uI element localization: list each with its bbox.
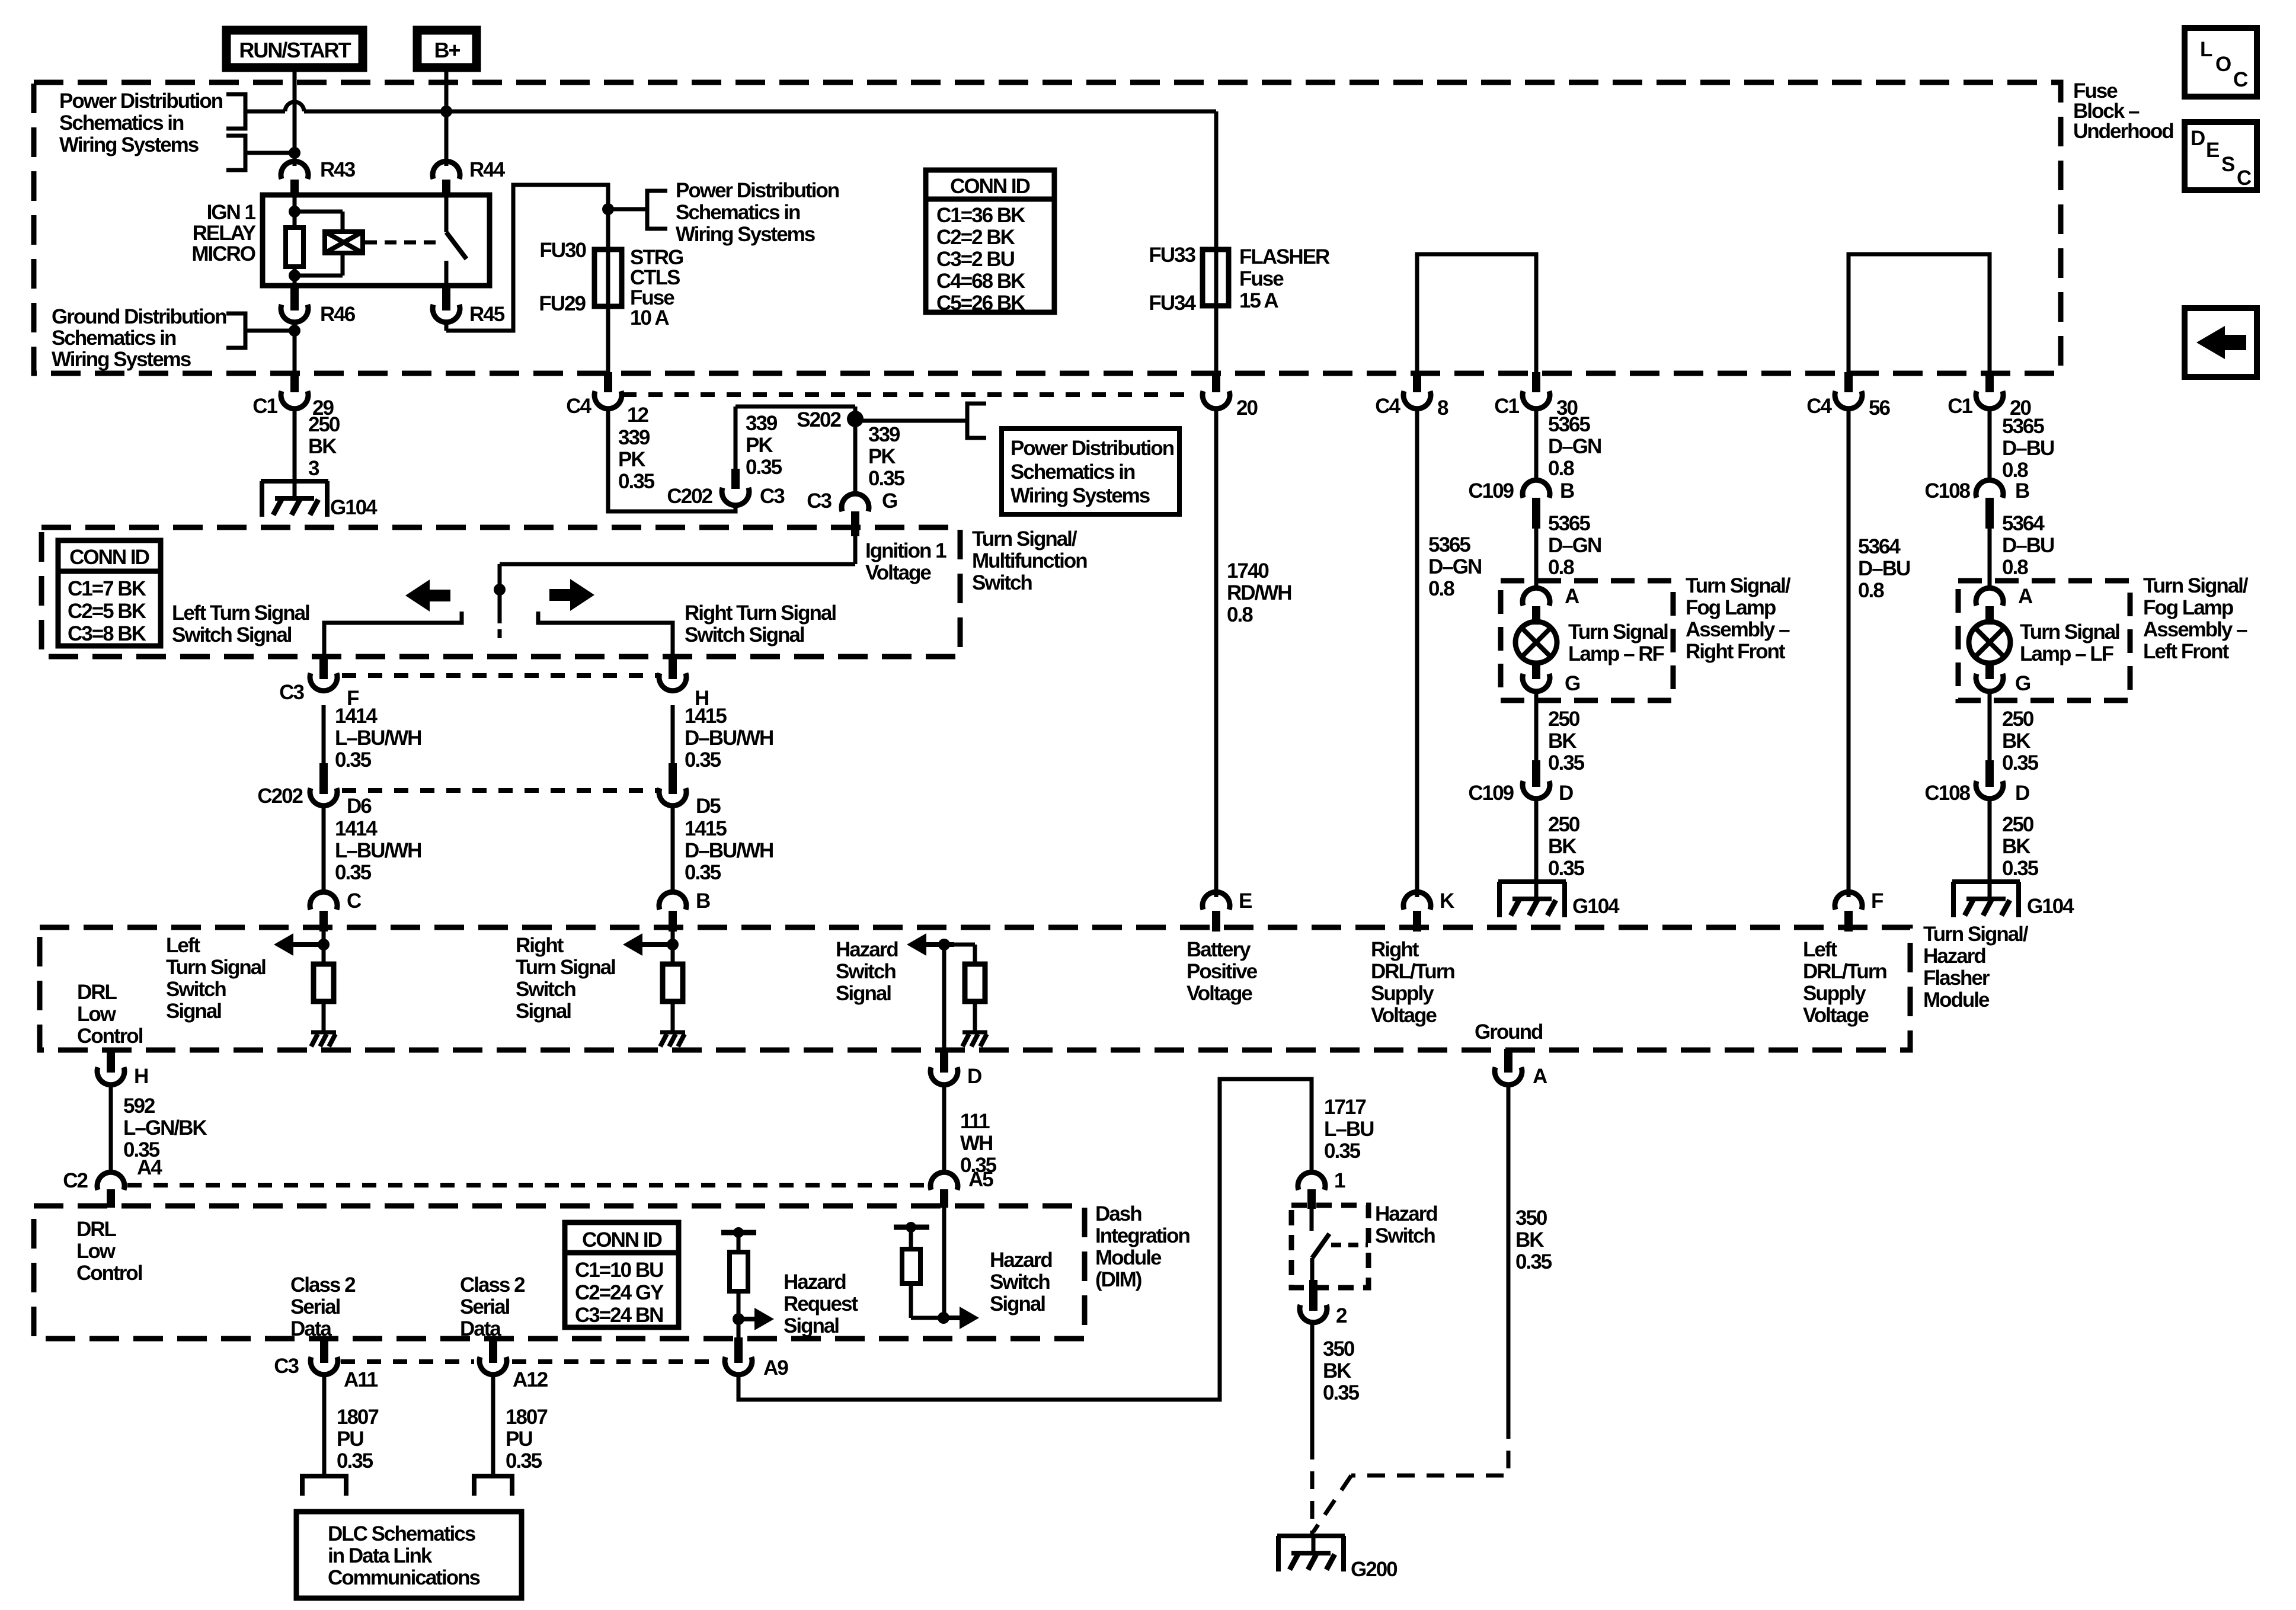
svg-text:A: A (2018, 585, 2033, 608)
label wire 1740 RD/WH 0.8 (1227, 559, 1291, 626)
svg-text:Schematics in: Schematics in (1011, 460, 1135, 484)
label wire 1415 D-BU/WH 0.35 (lower) (685, 817, 773, 884)
svg-text:Ignition 1: Ignition 1 (865, 539, 946, 562)
label: Class 2 Serial Data (A12) (460, 1273, 525, 1340)
svg-text:0.35: 0.35 (2002, 751, 2039, 774)
svg-text:G104: G104 (2027, 895, 2074, 918)
svg-text:FU34: FU34 (1149, 292, 1196, 315)
label wire 1414 L-BU/WH 0.35 (lower) (335, 817, 421, 884)
svg-text:Integration: Integration (1095, 1224, 1189, 1247)
svg-text:Switch Signal: Switch Signal (172, 623, 292, 646)
connector C109-B (1468, 479, 1574, 529)
wire 1414 upper (322, 705, 326, 764)
connector R43 (281, 158, 356, 197)
svg-text:C3: C3 (760, 485, 785, 508)
svg-text:350: 350 (1323, 1337, 1355, 1361)
connector 1 (hazard switch) (1298, 1169, 1345, 1231)
label: Left DRL/Turn Supply Voltage (1803, 938, 1886, 1027)
svg-text:A5: A5 (968, 1168, 993, 1191)
svg-text:Switch: Switch (990, 1270, 1050, 1294)
svg-text:Low: Low (76, 1240, 116, 1263)
connector C4-12 (566, 372, 648, 427)
dashed wire A to G200 (1313, 1421, 1508, 1532)
label wire 250 BK 0.35 (lower LF) (2002, 813, 2039, 880)
svg-text:C1: C1 (252, 395, 277, 418)
svg-text:in Data Link: in Data Link (328, 1544, 433, 1567)
svg-text:D: D (1559, 782, 1573, 805)
label A4 (137, 1156, 162, 1179)
svg-text:L–BU/WH: L–BU/WH (335, 726, 421, 750)
connector K (right supply) (1403, 889, 1454, 932)
arrow hazard switch signal (907, 933, 954, 956)
svg-text:5364: 5364 (1858, 535, 1901, 558)
svg-text:12: 12 (627, 404, 648, 427)
label wire 5364 D-BU 0.8 (lower LF) (2002, 512, 2054, 579)
svg-text:Schematics in: Schematics in (59, 111, 184, 135)
relay coil resistor (286, 195, 303, 286)
switch blade stub (498, 629, 502, 638)
svg-text:BK: BK (1323, 1359, 1351, 1382)
label: DRL Low Control (flasher module) (77, 981, 143, 1048)
svg-text:Ground: Ground (1475, 1020, 1543, 1044)
svg-text:Left Front: Left Front (2143, 640, 2230, 663)
svg-text:Hazard: Hazard (1375, 1202, 1437, 1225)
svg-text:Wiring Systems: Wiring Systems (676, 223, 816, 246)
connector C2-A4 (63, 1169, 124, 1208)
connector F (left supply) (1835, 889, 1884, 932)
svg-text:BK: BK (1548, 835, 1576, 858)
CONN ID table (multifunction switch) (58, 540, 161, 646)
svg-text:Signal: Signal (836, 982, 891, 1005)
right turn contact (538, 612, 673, 676)
wire hazard resistor to ground (973, 1001, 977, 1032)
wire resistor to ground (left) (322, 1001, 326, 1032)
svg-text:Multifunction: Multifunction (972, 549, 1087, 572)
label: Hazard Request Signal (784, 1270, 858, 1337)
svg-text:Switch: Switch (836, 960, 896, 983)
arrow hazard switch signal (945, 1307, 979, 1329)
svg-text:Battery: Battery (1187, 938, 1251, 961)
svg-text:Wiring Systems: Wiring Systems (59, 133, 199, 156)
svg-text:Right: Right (516, 934, 564, 957)
svg-text:Serial: Serial (290, 1295, 340, 1318)
label: Power Distribution Schematics in Wiring Systems (top left) (59, 89, 223, 156)
resistor left turn (314, 964, 334, 1001)
svg-text:Voltage: Voltage (1803, 1004, 1869, 1027)
svg-text:Voltage: Voltage (1187, 982, 1252, 1005)
fine dashed connector line (switch C3) (342, 673, 658, 678)
switch common pivot dot (494, 584, 506, 596)
svg-text:Fog Lamp: Fog Lamp (1686, 596, 1776, 619)
resistor hazard (965, 964, 985, 1001)
svg-text:Positive: Positive (1187, 960, 1258, 983)
svg-text:Hazard: Hazard (990, 1249, 1052, 1272)
label wire 1415 D-BU/WH 0.35 (upper) (685, 705, 773, 772)
svg-text:Dash: Dash (1095, 1202, 1141, 1225)
svg-text:1414: 1414 (335, 817, 378, 840)
svg-text:C202: C202 (667, 485, 712, 508)
svg-text:Switch: Switch (516, 978, 575, 1001)
svg-text:C2: C2 (63, 1169, 88, 1192)
svg-text:C1=10 BU: C1=10 BU (575, 1259, 663, 1282)
svg-text:5365: 5365 (1428, 533, 1470, 556)
svg-text:Module: Module (1095, 1246, 1162, 1269)
svg-text:BK: BK (2002, 835, 2030, 858)
svg-text:Right Turn Signal: Right Turn Signal (685, 601, 836, 625)
connector H (drl low) (97, 1049, 148, 1088)
svg-text:1807: 1807 (337, 1406, 378, 1429)
svg-text:Signal: Signal (516, 1000, 571, 1023)
wire 592 H to C2-A4 (109, 1083, 113, 1174)
ground (left turn input) (311, 1032, 336, 1046)
svg-text:111: 111 (960, 1110, 990, 1133)
svg-text:C3: C3 (807, 489, 832, 513)
svg-text:DRL: DRL (77, 981, 117, 1004)
label wire 111 WH 0.35 (960, 1110, 997, 1177)
svg-text:Serial: Serial (460, 1295, 510, 1318)
wire right turn input (671, 911, 675, 964)
wire A9 to hazard switch pin1 (738, 1079, 1312, 1400)
svg-text:Request: Request (784, 1292, 858, 1315)
label: Turn Signal/Fog Lamp Assembly - Left Front (2143, 574, 2249, 663)
svg-text:2: 2 (1336, 1304, 1347, 1327)
svg-text:RUN/START: RUN/START (239, 38, 351, 62)
svg-text:(DIM): (DIM) (1095, 1268, 1141, 1291)
back arrow box (2185, 308, 2257, 377)
connector C1-20 (1948, 372, 2031, 420)
svg-text:250: 250 (308, 413, 340, 436)
svg-text:C4: C4 (566, 395, 591, 418)
svg-text:Turn Signal: Turn Signal (166, 956, 266, 979)
svg-text:Power Distribution: Power Distribution (676, 179, 839, 202)
svg-text:S: S (2221, 153, 2234, 176)
label: Dash Integration Module (DIM) (1095, 1202, 1189, 1291)
left turn contact (324, 612, 462, 676)
svg-text:1415: 1415 (685, 817, 727, 840)
svg-text:Switch: Switch (972, 571, 1032, 594)
svg-text:1807: 1807 (506, 1406, 547, 1429)
svg-text:C109: C109 (1468, 479, 1514, 502)
connector C1-29 (252, 372, 334, 420)
wire C108-B to lamp A (1988, 506, 1992, 589)
label: Hazard Switch (1375, 1202, 1437, 1247)
wire loop C4-8 to C1-30 (1417, 254, 1536, 373)
svg-text:G: G (2015, 672, 2030, 695)
wire 1415 lower (671, 804, 675, 894)
svg-text:C1=7 BK: C1=7 BK (68, 577, 146, 600)
svg-text:339: 339 (746, 412, 778, 435)
svg-text:DRL/Turn: DRL/Turn (1803, 960, 1886, 983)
svg-text:C108: C108 (1924, 782, 1970, 805)
label: Ground Distribution Schematics in Wiring Systems (52, 305, 226, 371)
svg-text:CONN ID: CONN ID (950, 175, 1030, 198)
junction dot ground-dist branch (289, 325, 300, 337)
svg-text:0.35: 0.35 (1548, 751, 1585, 774)
svg-text:A9: A9 (763, 1356, 788, 1379)
svg-text:1414: 1414 (335, 705, 378, 728)
connector C202-D6 (257, 763, 372, 818)
svg-text:0.35: 0.35 (1324, 1140, 1361, 1163)
fine dashed connector line (DLC) (341, 1359, 720, 1364)
label: DRL Low Control (DIM) (76, 1218, 142, 1285)
svg-text:Data: Data (290, 1317, 332, 1340)
label wire 339 PK 0.35 (right) (868, 423, 905, 490)
fine dashed connector line (C202) (342, 788, 658, 793)
box: Power Distribution Schematics in Wiring Systems (S202) (1002, 428, 1179, 514)
relay box IGN 1 RELAY MICRO (263, 195, 490, 286)
svg-text:0.35: 0.35 (337, 1449, 373, 1473)
svg-text:0.35: 0.35 (868, 467, 905, 490)
internal rail T (hazard request) (721, 1227, 756, 1238)
svg-text:Supply: Supply (1371, 982, 1434, 1005)
wire R46 to C1-29 (293, 320, 297, 373)
wire 1740 connector 20 to E (1214, 406, 1219, 897)
label wire 1414 L-BU/WH 0.35 (upper) (335, 705, 421, 772)
svg-text:D–BU: D–BU (1858, 557, 1910, 580)
connector E (battery positive) (1203, 889, 1252, 932)
junction dot hazard request (733, 1313, 744, 1325)
svg-text:K: K (1440, 889, 1454, 913)
svg-text:Turn Signal/: Turn Signal/ (972, 527, 1077, 550)
svg-text:0.35: 0.35 (746, 456, 782, 479)
connector C3-A11 (274, 1337, 378, 1391)
wire C1-29 to G104 (293, 406, 297, 481)
svg-text:RELAY: RELAY (193, 222, 256, 245)
wire lamp LF to C108-D (1988, 691, 1992, 764)
svg-text:C3=2 BU: C3=2 BU (936, 248, 1015, 271)
wire 1415 upper (671, 705, 675, 764)
svg-text:C1: C1 (1948, 395, 1972, 418)
svg-text:339: 339 (868, 423, 900, 446)
connector G (lamp LF) (1976, 661, 2030, 695)
svg-text:L–BU: L–BU (1324, 1118, 1374, 1141)
svg-text:0.8: 0.8 (1548, 556, 1574, 579)
svg-text:0.35: 0.35 (685, 748, 721, 772)
label wire 5365 D-BU 0.8 (upper LF) (2002, 415, 2054, 482)
svg-text:BK: BK (1515, 1228, 1544, 1251)
label wire 350 BK 0.35 (switch) (1323, 1337, 1360, 1404)
DESC legend box (2185, 122, 2257, 190)
label FU34 (1149, 292, 1196, 315)
svg-text:250: 250 (2002, 813, 2034, 836)
label: Right DRL/Turn Supply Voltage (1371, 938, 1454, 1027)
connector C108-B (1924, 479, 2029, 529)
svg-text:Turn Signal: Turn Signal (1568, 620, 1668, 644)
svg-text:Control: Control (76, 1262, 142, 1285)
svg-text:Switch Signal: Switch Signal (685, 623, 804, 646)
left turn arrow (405, 580, 450, 612)
svg-text:0.35: 0.35 (2002, 857, 2039, 880)
svg-text:Turn Signal/: Turn Signal/ (2143, 574, 2249, 597)
connector R44 (433, 158, 506, 197)
wire hazard request down (737, 1291, 741, 1339)
svg-text:R43: R43 (320, 158, 356, 181)
svg-text:Underhood: Underhood (2073, 120, 2173, 143)
svg-text:BK: BK (308, 435, 337, 458)
svg-text:56: 56 (1869, 396, 1890, 420)
label wire 1807 PU 0.35 (A11) (337, 1406, 378, 1473)
svg-text:339: 339 (618, 426, 650, 449)
svg-text:H: H (134, 1065, 148, 1088)
svg-text:Schematics in: Schematics in (676, 201, 800, 224)
label FU29 (539, 292, 586, 315)
arrow left turn signal (274, 933, 321, 956)
wire ignition feed into switch (500, 518, 855, 623)
label: Power Distribution Schematics in Wiring Systems (mid) (676, 179, 839, 246)
wire C1-20 to C108-B (1988, 406, 1992, 481)
svg-text:D–GN: D–GN (1548, 534, 1601, 557)
label wire 5364 D-BU 0.8 (F) (1858, 535, 1910, 602)
wire FLASHER fuse to connector 20 (1214, 306, 1219, 373)
label: Turn Signal/Hazard Flasher Module (1923, 923, 2029, 1012)
svg-text:G: G (1565, 672, 1580, 695)
turn signal fog lamp assembly LF dashed box (1958, 581, 2130, 700)
label FU30 (539, 239, 586, 262)
fuse block - underhood dashed outline (34, 82, 2061, 373)
svg-text:0.35: 0.35 (335, 748, 372, 772)
svg-text:Communications: Communications (328, 1566, 480, 1589)
label wire 250 BK 3 (308, 413, 340, 480)
bracket: Power Distribution reference (ign wire) (226, 136, 295, 170)
svg-text:B: B (1560, 479, 1574, 502)
bracket: Power Distribution (S202) (967, 404, 986, 438)
svg-text:C5=26 BK: C5=26 BK (936, 292, 1025, 315)
right turn arrow (549, 579, 594, 611)
svg-text:PU: PU (337, 1427, 363, 1451)
bracket: Power Distribution reference (feed wire) (226, 94, 285, 129)
wire A5 down (942, 1207, 946, 1318)
svg-text:PU: PU (506, 1427, 532, 1451)
svg-text:FU33: FU33 (1149, 244, 1195, 267)
svg-text:592: 592 (123, 1094, 155, 1118)
svg-text:Right Front: Right Front (1686, 640, 1786, 663)
svg-text:G: G (882, 489, 897, 513)
svg-text:PK: PK (618, 448, 645, 471)
turn signal lamp RF (1515, 612, 1557, 674)
wire C202 up to S202 (736, 406, 855, 470)
svg-text:Hazard: Hazard (784, 1270, 846, 1294)
wire fuse to C4-12 (606, 306, 610, 373)
power feed box RUN/START (226, 30, 363, 68)
svg-text:C202: C202 (257, 785, 303, 808)
connector 20 (1203, 372, 1258, 420)
junction dot hazard input (938, 939, 950, 950)
svg-text:Module: Module (1923, 988, 1990, 1012)
svg-text:Flasher: Flasher (1923, 966, 1990, 990)
wire RUN/START to IGN1 relay (x497) (293, 68, 297, 166)
svg-text:Supply: Supply (1803, 982, 1866, 1005)
svg-text:350: 350 (1515, 1206, 1547, 1230)
svg-text:B: B (2015, 479, 2029, 502)
wire S202 to power distribution bracket (855, 419, 967, 423)
label wire 1717 L-BU 0.35 (1324, 1096, 1374, 1163)
svg-text:5364: 5364 (2002, 512, 2045, 535)
svg-text:D: D (2191, 127, 2205, 150)
svg-text:PK: PK (868, 445, 896, 468)
svg-text:0.8: 0.8 (1548, 457, 1574, 480)
svg-text:A: A (1533, 1065, 1547, 1088)
wire C4-12 to C202 (608, 406, 736, 511)
wire left turn input (322, 911, 326, 964)
svg-text:D: D (967, 1065, 981, 1088)
wire C1-30 to C109-B (1534, 406, 1539, 481)
svg-text:Turn Signal: Turn Signal (516, 956, 615, 979)
label: Ground (module) (1475, 1020, 1543, 1044)
resistor hazard switch sig (902, 1230, 920, 1283)
junction dot RUN/START & power-dist branch (289, 147, 300, 159)
hazard pull resistor wire (944, 945, 975, 964)
ground G104 (left) (261, 406, 378, 519)
label: Ignition 1 Voltage (865, 539, 946, 584)
connector C4-8 (1375, 372, 1448, 420)
fuse FU33/FU34 FLASHER (1203, 249, 1229, 306)
svg-text:C2=24 GY: C2=24 GY (575, 1281, 664, 1304)
svg-text:S202: S202 (797, 408, 841, 431)
svg-text:CONN ID: CONN ID (582, 1228, 662, 1251)
label wire 5365 D-GN 0.8 (lower RF) (1548, 512, 1601, 579)
junction dot hazard switch sig (938, 1312, 949, 1324)
svg-text:D–BU/WH: D–BU/WH (685, 839, 773, 862)
svg-text:Hazard: Hazard (836, 938, 898, 961)
svg-text:A11: A11 (344, 1368, 378, 1391)
fuse FU30/FU29 STRG CTLS (594, 249, 622, 306)
ground (hazard input) (962, 1032, 987, 1046)
terminal staple A12 (474, 1476, 512, 1496)
svg-text:R46: R46 (320, 303, 356, 326)
connector C3-G (807, 489, 897, 536)
wire R45 to STRG CTLS fuse (446, 185, 608, 331)
svg-text:0.35: 0.35 (1515, 1250, 1552, 1273)
svg-text:WH: WH (960, 1132, 992, 1155)
svg-text:A4: A4 (137, 1156, 162, 1179)
fine dashed connector line (fuse block C2) (622, 392, 1191, 397)
connector 2 (hazard switch) (1300, 1280, 1347, 1327)
label: Class 2 Serial Data (A11) (290, 1273, 356, 1340)
label FU33 (1149, 244, 1195, 267)
connector A (lamp LF) (1976, 585, 2033, 623)
relay coil-contact dashed link (365, 241, 439, 245)
svg-text:Switch: Switch (1375, 1224, 1435, 1247)
svg-text:L: L (2200, 38, 2212, 61)
connector C108-D (1924, 760, 2029, 805)
bracket: Ground Distribution reference (226, 313, 295, 348)
svg-text:Data: Data (460, 1317, 501, 1340)
label wire 250 BK 0.35 (upper RF) (1548, 708, 1585, 774)
svg-text:Hazard: Hazard (1923, 945, 1985, 968)
wire C109-B to lamp A (1534, 506, 1539, 589)
svg-text:G104: G104 (1572, 895, 1620, 918)
svg-text:Switch: Switch (166, 978, 226, 1001)
relay coil winding (295, 212, 363, 276)
wire hazard input (942, 945, 946, 1050)
connector R46 (281, 286, 356, 326)
wire B+ down (445, 68, 449, 166)
hazard switch pin2 stub (1310, 1258, 1315, 1291)
svg-text:D: D (2015, 782, 2029, 805)
svg-text:10 A: 10 A (630, 306, 669, 329)
svg-text:L–GN/BK: L–GN/BK (123, 1116, 207, 1140)
svg-text:D–BU/WH: D–BU/WH (685, 726, 773, 750)
connector G (lamp RF) (1523, 661, 1580, 695)
wire C109-D to ground (1534, 799, 1539, 882)
svg-text:Fog Lamp: Fog Lamp (2143, 596, 2233, 619)
svg-text:L–BU/WH: L–BU/WH (335, 839, 421, 862)
svg-text:C2=5 BK: C2=5 BK (68, 600, 146, 623)
CONN ID table (fuse block) (926, 170, 1054, 315)
svg-text:E: E (2206, 139, 2219, 162)
label: Turn Signal Lamp - RF (1568, 620, 1668, 665)
svg-text:250: 250 (1548, 813, 1580, 836)
